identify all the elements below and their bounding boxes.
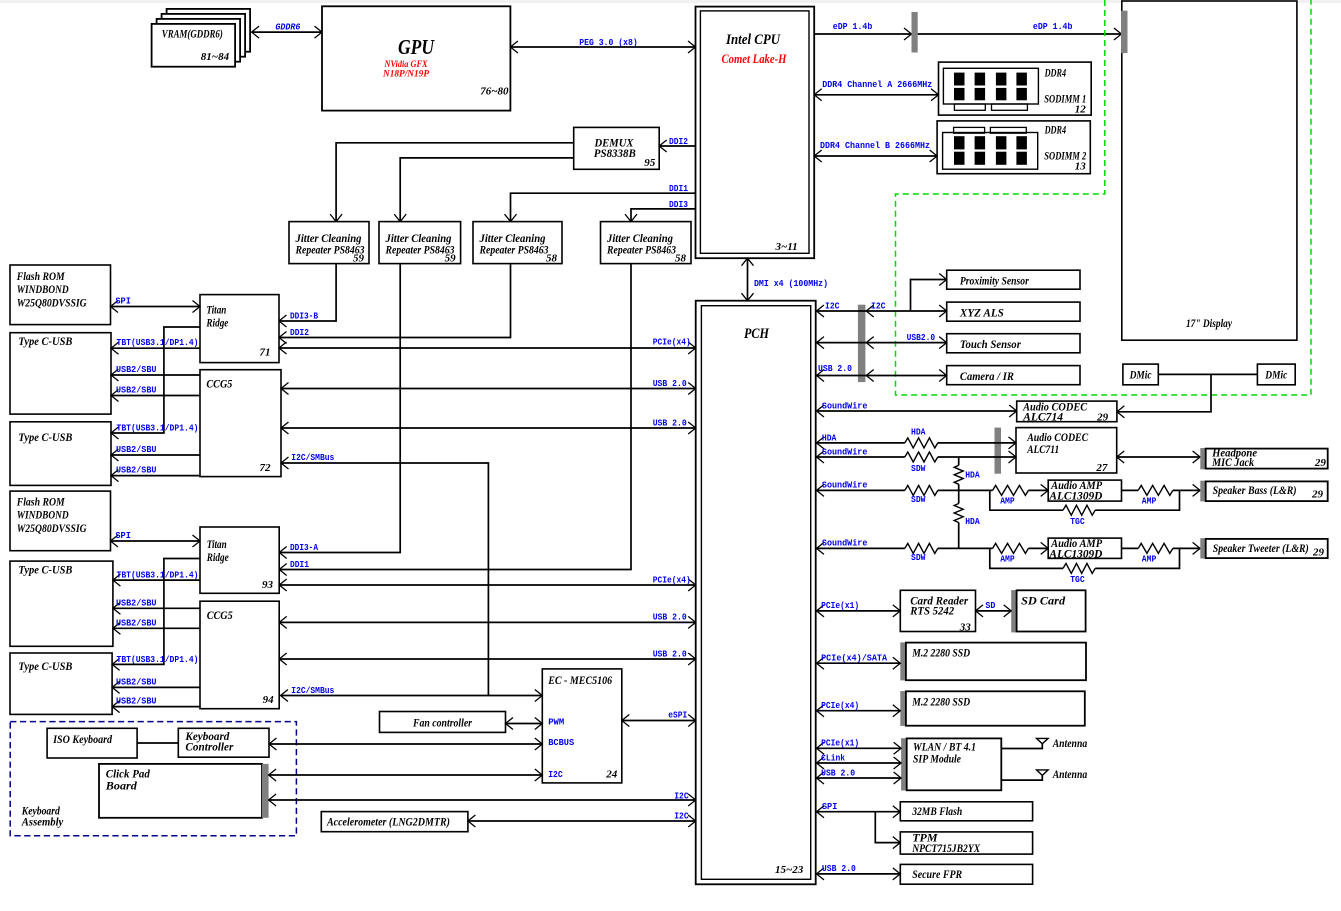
svg-text:I2C: I2C: [825, 300, 840, 311]
Audio CODEC ALC714 box 29: [1017, 401, 1117, 422]
svg-text:eSPI: eSPI: [668, 710, 687, 721]
svg-text:33: 33: [959, 621, 972, 633]
svg-text:Touch Sensor: Touch Sensor: [960, 337, 1021, 351]
wire I2C EC - Click Pad: [269, 774, 543, 776]
wire USB 2.0 CCG5 72 - PCH a: [281, 388, 696, 390]
DEMUX PS8338B box 95: [574, 127, 660, 169]
wire TGC feedback loop 2 with resistor: [990, 548, 1180, 568]
connector bar eDP 2 display: [1121, 11, 1128, 53]
svg-text:Flash ROM: Flash ROM: [16, 494, 65, 508]
svg-text:12: 12: [1075, 104, 1087, 116]
svg-text:SD: SD: [985, 600, 995, 611]
svg-text:HDA: HDA: [911, 427, 926, 438]
wire USB2/SBU Type C4 b: [112, 706, 200, 708]
svg-text:USB 2.0: USB 2.0: [653, 648, 687, 659]
svg-text:I2C/SMBus: I2C/SMBus: [291, 452, 334, 463]
svg-text:32MB Flash: 32MB Flash: [911, 804, 962, 818]
svg-text:GPU: GPU: [398, 35, 436, 59]
Jitter Cleaning Repeater PS8463 box 4 (58): [601, 222, 692, 264]
svg-text:3~11: 3~11: [775, 241, 798, 253]
svg-text:Jitter Cleaning: Jitter Cleaning: [479, 233, 546, 245]
svg-text:WINDBOND: WINDBOND: [17, 282, 69, 296]
Audio AMP ALC1309D box 2: [1048, 538, 1121, 558]
svg-text:SDW: SDW: [911, 463, 926, 474]
wire USB 2.0 CCG5 94 - PCH b: [279, 658, 696, 660]
svg-text:USB2/SBU: USB2/SBU: [116, 465, 157, 476]
svg-text:ALC1309D: ALC1309D: [1048, 488, 1102, 502]
connector bar display redraw: [1121, 11, 1128, 53]
svg-text:MIC Jack: MIC Jack: [1211, 455, 1254, 469]
wire SoundWire PCH - ALC714: [816, 410, 1017, 412]
M.2 2280 SSD box 2: [900, 691, 906, 726]
wire PEG 3.0 (x8) GPU-CPU: [510, 46, 695, 48]
svg-text:W25Q80DVSSIG: W25Q80DVSSIG: [17, 296, 87, 310]
wire I2C/SMBus CCG5 94 - EC: [281, 695, 543, 697]
svg-text:HDA: HDA: [965, 516, 980, 527]
DMic box left: [1123, 364, 1158, 385]
svg-text:SoundWire: SoundWire: [822, 400, 868, 411]
wire repeater3 out DDI2 to Titan Ridge 71: [279, 264, 511, 338]
Titan Ridge box 93: [200, 527, 279, 593]
svg-text:DMI x4 (100MHz): DMI x4 (100MHz): [754, 278, 828, 289]
svg-text:Secure FPR: Secure FPR: [912, 867, 962, 881]
Type C-USB box 2: [10, 422, 111, 486]
svg-text:15~23: 15~23: [775, 864, 804, 876]
wire eSPI EC - PCH: [622, 720, 696, 722]
SODIMM 2 DDR4 module 13: [937, 121, 1090, 174]
svg-text:USB2/SBU: USB2/SBU: [116, 696, 157, 707]
svg-text:ALC714: ALC714: [1022, 410, 1063, 424]
svg-text:USB2/SBU: USB2/SBU: [116, 385, 157, 396]
svg-text:DDR4 Channel B 2666MHz: DDR4 Channel B 2666MHz: [820, 140, 930, 151]
Titan Ridge box 71: [200, 295, 279, 363]
svg-text:Jitter Cleaning: Jitter Cleaning: [385, 233, 452, 245]
wire SPI Flash ROM 2 - Titan Ridge 93: [111, 540, 201, 542]
TPM NPCT715JB2YX box: [900, 832, 1032, 854]
svg-text:Assembly: Assembly: [21, 814, 64, 828]
svg-text:XYZ ALS: XYZ ALS: [959, 305, 1004, 319]
connector bar eDP 1: [912, 12, 918, 53]
wire PCIe(x4) Titan Ridge 93 - PCH: [279, 584, 696, 586]
wire USB2.0 PCH - Touch Sensor: [816, 342, 947, 344]
wire SPI PCH - 32MB Flash and TPM branch: [816, 812, 901, 843]
svg-text:59: 59: [353, 252, 365, 264]
svg-text:95: 95: [644, 157, 656, 169]
wire DMic pair to Audio CODEC ALC714: [1117, 374, 1258, 411]
svg-text:DDI3-A: DDI3-A: [290, 542, 318, 553]
EC - MEC5106 box 24: [542, 669, 622, 783]
wire USB2/SBU Type C3 b: [113, 627, 200, 629]
svg-text:USB 2.0: USB 2.0: [653, 612, 687, 623]
Type C-USB box 4: [10, 653, 112, 714]
svg-text:24: 24: [605, 768, 618, 780]
ISO Keyboard box: [47, 728, 137, 758]
svg-text:DDR4: DDR4: [1044, 67, 1066, 79]
Touch Sensor box: [947, 334, 1080, 353]
Audio CODEC ALC711 box 27: [1016, 428, 1117, 473]
svg-text:USB 2.0: USB 2.0: [821, 767, 855, 778]
svg-text:Flash ROM: Flash ROM: [16, 269, 65, 283]
svg-text:TBT(USB3.1/DP1.4): TBT(USB3.1/DP1.4): [117, 337, 199, 348]
svg-text:SDW: SDW: [911, 494, 926, 505]
wire USB 2.0 CCG5 72 - PCH b: [281, 427, 696, 429]
svg-text:ISO Keyboard: ISO Keyboard: [52, 732, 113, 746]
Camera / IR box: [947, 366, 1080, 385]
svg-text:SDW: SDW: [911, 552, 926, 563]
svg-text:PCIe(x4): PCIe(x4): [653, 336, 691, 347]
wire CLink PCH - WLAN: [816, 762, 901, 764]
svg-text:Speaker Bass (L&R): Speaker Bass (L&R): [1213, 483, 1297, 497]
svg-text:W25Q80DVSSIG: W25Q80DVSSIG: [17, 521, 87, 535]
Click Pad Board box: [99, 764, 262, 818]
wire USB2/SBU Type C2 b: [111, 475, 200, 477]
svg-text:29: 29: [1312, 546, 1325, 558]
svg-text:SoundWire: SoundWire: [822, 446, 868, 457]
svg-text:USB2.0: USB2.0: [907, 332, 936, 343]
svg-text:PCIe(x4): PCIe(x4): [653, 574, 691, 585]
Speaker Tweeter (L&R) box 29: [1200, 538, 1205, 558]
resistor HDA vertical branch 2: [958, 490, 960, 548]
svg-text:TBT(USB3.1/DP1.4): TBT(USB3.1/DP1.4): [117, 654, 199, 665]
Speaker Bass (L&R) box 29: [1200, 481, 1205, 502]
wire DDI1 CPU to repeater 3: [511, 193, 696, 221]
wire TBT(USB3.1/DP1.4) Type C 4 - Titan Ridge 93: [112, 559, 200, 665]
svg-text:AMP: AMP: [1000, 553, 1015, 564]
antenna 1 symbol: [1001, 744, 1042, 749]
svg-text:ALC711: ALC711: [1026, 442, 1059, 456]
svg-text:PWM: PWM: [548, 717, 564, 728]
svg-text:81~84: 81~84: [201, 51, 230, 63]
wire TBT(USB3.1/DP1.4) Type C 3 - Titan Ridge 93: [113, 579, 200, 581]
svg-text:SoundWire: SoundWire: [822, 480, 868, 491]
svg-text:VRAM(GDDR6): VRAM(GDDR6): [162, 29, 223, 41]
wire BCBUS EC - Keyboard Controller: [269, 743, 542, 745]
Flash ROM WINDBOND W25Q80DVSSIG box 1: [10, 265, 111, 325]
svg-text:SIP Module: SIP Module: [913, 752, 962, 766]
svg-text:HDA: HDA: [965, 469, 980, 480]
svg-text:PS8338B: PS8338B: [594, 146, 636, 160]
Jitter Cleaning Repeater PS8463 box 3 (58): [473, 222, 562, 264]
svg-text:ALC1309D: ALC1309D: [1048, 546, 1102, 560]
Flash ROM WINDBOND W25Q80DVSSIG box 2: [10, 491, 111, 551]
svg-text:Controller: Controller: [185, 740, 233, 754]
svg-text:I2C: I2C: [674, 790, 689, 801]
svg-text:Antenna: Antenna: [1052, 767, 1087, 781]
svg-text:AMP: AMP: [1142, 495, 1157, 506]
svg-text:13: 13: [1075, 161, 1087, 173]
svg-text:NVidia GFX: NVidia GFX: [384, 60, 428, 70]
WLAN / BT 4.1 SIP Module box: [901, 738, 907, 790]
svg-text:DDR4 Channel A 2666MHz: DDR4 Channel A 2666MHz: [822, 79, 932, 90]
svg-text:TBT(USB3.1/DP1.4): TBT(USB3.1/DP1.4): [117, 423, 199, 434]
svg-text:I2C: I2C: [674, 810, 689, 821]
svg-text:Antenna: Antenna: [1052, 736, 1087, 750]
Secure FPR box: [900, 864, 1032, 884]
wire USB2/SBU Type C2 a: [111, 454, 200, 456]
wire repeater1 out DDI3-B to Titan Ridge 71: [279, 264, 336, 321]
wire TGC feedback loop 1 with resistor: [990, 490, 1180, 510]
wire PCIe(x4) PCH - SSD2: [816, 710, 901, 712]
svg-text:TGC: TGC: [1070, 574, 1085, 585]
wire PWM Fan controller - EC: [506, 723, 543, 725]
svg-text:M.2 2280 SSD: M.2 2280 SSD: [911, 695, 970, 709]
svg-text:72: 72: [260, 462, 272, 474]
wire DDI2 CPU to DEMUX: [659, 145, 695, 147]
wire DMI x4 (100MHz) CPU-PCH: [747, 258, 749, 301]
svg-text:Speaker Tweeter (L&R): Speaker Tweeter (L&R): [1213, 541, 1309, 555]
svg-text:PCIe(x1): PCIe(x1): [821, 738, 859, 749]
connector bar sensors: [858, 305, 866, 382]
wire ISO Keyboard - Keyboard Controller: [137, 742, 178, 744]
svg-text:USB 2.0: USB 2.0: [653, 378, 687, 389]
svg-text:USB2/SBU: USB2/SBU: [116, 597, 157, 608]
svg-text:PCIe(x4): PCIe(x4): [821, 700, 859, 711]
wire PCIe(x1) PCH - Card Reader: [816, 610, 901, 612]
svg-text:CLink: CLink: [821, 752, 845, 763]
wire USB2/SBU Type C1 b: [111, 395, 200, 397]
svg-text:93: 93: [262, 579, 274, 591]
svg-text:SPI: SPI: [115, 530, 130, 541]
svg-text:N18P/N19P: N18P/N19P: [382, 70, 429, 80]
svg-text:Type C-USB: Type C-USB: [18, 562, 72, 576]
Accelerometer (LNG2DMTR) box: [321, 812, 468, 832]
M.2 2280 SSD box 1: [900, 642, 906, 680]
svg-text:TGC: TGC: [1070, 516, 1085, 527]
svg-text:27: 27: [1095, 462, 1108, 474]
Keyboard Assembly dashed enclosure: [10, 722, 296, 836]
svg-text:eDP 1.4b: eDP 1.4b: [833, 21, 873, 32]
wire PCIe(x4) Titan Ridge 71 - PCH: [279, 347, 696, 349]
svg-text:Fan controller: Fan controller: [412, 716, 472, 730]
svg-text:M.2 2280 SSD: M.2 2280 SSD: [911, 646, 970, 660]
connector bar Click Pad: [262, 764, 269, 818]
Keyboard Controller box: [178, 728, 269, 757]
wire USB 2.0 PCH - Secure FPR: [816, 873, 901, 875]
svg-text:NPCT715JB2YX: NPCT715JB2YX: [911, 841, 981, 855]
32MB Flash box: [900, 802, 1032, 821]
svg-text:SPI: SPI: [822, 801, 838, 812]
Headpone MIC Jack box 29: [1200, 448, 1205, 469]
svg-text:I2C/SMBus: I2C/SMBus: [291, 685, 334, 696]
wire SoundWire PCH - ALC711 with resistor SDW: [816, 456, 1016, 458]
wire TBT(USB3.1/DP1.4) Type C 2 - Titan Ridge 71: [111, 327, 200, 433]
green dashed panel boundary: [896, 0, 1312, 395]
svg-text:SD Card: SD Card: [1021, 593, 1066, 607]
svg-text:94: 94: [263, 694, 275, 706]
GPU box NVidia GFX N18P/N19P 76~80: [322, 6, 510, 110]
Proximity Sensor box: [947, 270, 1080, 289]
svg-text:USB2/SBU: USB2/SBU: [116, 444, 157, 455]
svg-text:Titan: Titan: [206, 303, 226, 317]
wire Audio AMP 1 - Speaker Bass with resistor AMP: [1122, 489, 1201, 491]
Intel CPU Comet Lake-H box 3~11: [696, 7, 815, 259]
wire USB2/SBU Type C4 a: [112, 686, 200, 688]
SD Card box: [1011, 590, 1016, 632]
svg-text:Type C-USB: Type C-USB: [18, 430, 72, 444]
svg-text:DDR4: DDR4: [1044, 124, 1066, 136]
svg-text:I2C: I2C: [871, 300, 886, 311]
PCH box 15~23: [696, 301, 816, 885]
XYZ ALS box: [947, 302, 1080, 321]
svg-text:Repeater PS8463: Repeater PS8463: [606, 245, 676, 257]
svg-text:USB 2.0: USB 2.0: [822, 863, 856, 874]
wire eDP 1.4b connector to display: [918, 33, 1122, 35]
Card Reader RTS 5242 box 33: [900, 590, 975, 631]
svg-text:RTS 5242: RTS 5242: [909, 603, 954, 617]
svg-text:SoundWire: SoundWire: [822, 538, 868, 549]
connector bar Audio CODEC ALC711: [995, 428, 1002, 474]
svg-text:17" Display: 17" Display: [1186, 316, 1233, 330]
svg-text:58: 58: [675, 252, 687, 264]
wire PCIe(x1) PCH - WLAN: [816, 747, 901, 749]
svg-text:EC - MEC5106: EC - MEC5106: [547, 675, 612, 687]
svg-text:Jitter Cleaning: Jitter Cleaning: [606, 233, 673, 245]
svg-text:DMic: DMic: [1129, 368, 1152, 382]
wire Audio AMP 2 - Speaker Tweeter with resistor AMP: [1122, 547, 1201, 549]
wire USB 2.0 PCH - WLAN: [816, 777, 901, 779]
wire DEMUX out1 to repeater 1: [336, 143, 574, 222]
wire USB2/SBU Type C3 a: [113, 607, 200, 609]
Audio AMP ALC1309D box 1: [1048, 480, 1121, 501]
svg-text:Comet Lake-H: Comet Lake-H: [722, 51, 788, 66]
svg-text:PEG 3.0 (x8): PEG 3.0 (x8): [579, 37, 638, 48]
svg-text:Ridge: Ridge: [206, 316, 229, 330]
svg-text:I2C: I2C: [548, 769, 563, 780]
VRAM(GDDR6) memory stack 81~84: [167, 9, 251, 52]
svg-text:CCG5: CCG5: [207, 608, 233, 622]
svg-text:76~80: 76~80: [480, 86, 509, 98]
wire USB 2.0 PCH - Camera/IR: [816, 375, 947, 377]
svg-text:PCIe(x4)/SATA: PCIe(x4)/SATA: [821, 653, 887, 664]
svg-text:Type C-USB: Type C-USB: [18, 659, 72, 673]
svg-text:Ridge: Ridge: [206, 550, 229, 564]
svg-text:DDI2: DDI2: [290, 327, 309, 338]
svg-text:Repeater PS8463: Repeater PS8463: [479, 245, 549, 257]
svg-text:71: 71: [260, 347, 271, 359]
wire GDDR6 VRAM-GPU: [252, 31, 322, 33]
antenna 2 symbol: [1001, 775, 1042, 780]
wire DDI3 CPU to repeater 4: [631, 209, 696, 222]
svg-text:DDI3: DDI3: [669, 199, 688, 210]
DMic box right: [1257, 364, 1295, 385]
CCG5 box 72: [200, 370, 281, 477]
svg-text:BCBUS: BCBUS: [548, 737, 574, 748]
svg-text:Titan: Titan: [207, 537, 227, 551]
Fan controller box: [380, 712, 506, 733]
svg-text:29: 29: [1096, 411, 1109, 423]
wire I2C PCH - XYZ ALS: [816, 310, 947, 312]
CCG5 box 94: [200, 601, 279, 709]
svg-text:29: 29: [1311, 489, 1324, 501]
wire I2C PCH - Accelerometer: [468, 820, 696, 822]
wire HDA PCH - ALC711 with resistor: [816, 442, 1016, 444]
svg-text:Type C-USB: Type C-USB: [18, 334, 72, 348]
wire I2C/SMBus CCG5 72 branch: [281, 463, 488, 696]
svg-text:AMP: AMP: [1142, 553, 1157, 564]
wire USB 2.0 CCG5 94 - PCH a: [279, 621, 696, 623]
wire USB2/SBU Type C1 a: [111, 374, 200, 376]
svg-text:CCG5: CCG5: [206, 376, 232, 390]
svg-text:DDI2: DDI2: [669, 136, 688, 147]
svg-text:TBT(USB3.1/DP1.4): TBT(USB3.1/DP1.4): [117, 569, 199, 580]
wire DDR4 Channel A 2666MHz: [814, 94, 938, 96]
resistor HDA vertical branch 1: [958, 457, 960, 490]
17 inch Display box: [1122, 1, 1297, 340]
svg-text:29: 29: [1314, 457, 1327, 469]
wire SD Card Reader - SD Card: [976, 610, 1012, 612]
svg-text:59: 59: [445, 252, 457, 264]
Type C-USB box 1: [10, 333, 111, 414]
svg-text:Jitter Cleaning: Jitter Cleaning: [295, 233, 362, 245]
svg-text:WINDBOND: WINDBOND: [17, 508, 69, 522]
svg-text:USB 2.0: USB 2.0: [818, 363, 852, 374]
svg-text:USB2/SBU: USB2/SBU: [116, 364, 157, 375]
Jitter Cleaning Repeater PS8463 box 1 (59): [289, 222, 369, 264]
svg-text:58: 58: [546, 252, 558, 264]
wire repeater2 out DDI3-A to Titan Ridge 93: [279, 264, 400, 553]
wire repeater4 out DDI1 to Titan Ridge 93: [279, 264, 631, 570]
svg-text:DDI1: DDI1: [669, 183, 688, 194]
wire branch to Proximity Sensor: [911, 280, 947, 312]
wire DEMUX out2 to repeater 2: [400, 158, 574, 222]
svg-text:SPI: SPI: [115, 295, 130, 306]
svg-text:Accelerometer (LNG2DMTR): Accelerometer (LNG2DMTR): [326, 815, 450, 829]
svg-text:Intel CPU: Intel CPU: [725, 32, 781, 48]
wire SoundWire PCH - Audio AMP 1 with resistors SDW AMP: [816, 489, 1048, 491]
svg-text:Board: Board: [105, 779, 138, 793]
wire SoundWire PCH - Audio AMP 2 with resistors SDW AMP: [816, 547, 1048, 549]
svg-text:Proximity Sensor: Proximity Sensor: [960, 273, 1029, 287]
svg-text:DDI1: DDI1: [290, 559, 309, 570]
SODIMM 1 DDR4 module 12: [939, 62, 1092, 115]
svg-text:USB 2.0: USB 2.0: [653, 417, 687, 428]
svg-text:eDP 1.4b: eDP 1.4b: [1033, 21, 1073, 32]
wire DDR4 Channel B 2666MHz: [814, 155, 937, 157]
wire headphone ALC711 - jack: [1117, 456, 1200, 458]
wire SPI Flash ROM 1 - Titan Ridge 71: [111, 306, 201, 308]
svg-text:USB2/SBU: USB2/SBU: [116, 617, 157, 628]
Jitter Cleaning Repeater PS8463 box 2 (59): [379, 222, 461, 264]
svg-text:Camera / IR: Camera / IR: [960, 369, 1014, 383]
wire eDP 1.4b CPU to connector: [814, 33, 911, 35]
wire TBT(USB3.1/DP1.4) Type C 1 - Titan Ridge 71: [111, 347, 200, 349]
svg-text:HDA: HDA: [822, 432, 837, 443]
svg-text:DMic: DMic: [1265, 368, 1288, 382]
svg-text:DDI3-B: DDI3-B: [290, 310, 318, 321]
wire PCIe(x4)/SATA PCH - SSD1: [816, 662, 901, 664]
svg-text:AMP: AMP: [1000, 495, 1015, 506]
svg-text:GDDR6: GDDR6: [275, 21, 300, 32]
svg-text:USB2/SBU: USB2/SBU: [116, 676, 157, 687]
svg-text:PCH: PCH: [744, 326, 770, 342]
svg-text:PCIe(x1): PCIe(x1): [821, 600, 859, 611]
wire I2C PCH - Click Pad: [269, 799, 696, 801]
Type C-USB box 3: [10, 561, 113, 646]
